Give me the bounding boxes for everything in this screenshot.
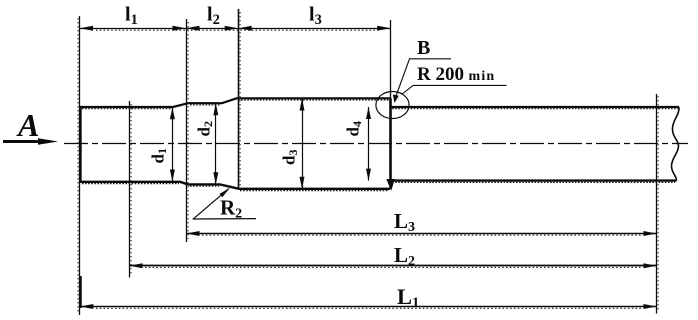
extension line l1/l2 boundary and L3 datum bbox=[186, 19, 188, 242]
extension line right (L1 L2 L3) bbox=[656, 94, 658, 314]
extension line L2 datum bbox=[129, 101, 131, 278]
leader R2 slant bbox=[193, 189, 229, 220]
leader B line bbox=[396, 59, 410, 96]
arrow l2 left bbox=[186, 26, 199, 31]
arrow l1 right bbox=[173, 26, 186, 31]
dimension line L3 bbox=[187, 233, 657, 235]
shaft bottom outline section 1 bbox=[80, 182, 390, 189]
leader B underline bbox=[409, 58, 451, 60]
extension line left (shaft left end, l1/L1 datum) bbox=[79, 16, 81, 315]
leader R2 arrowhead bbox=[220, 188, 231, 198]
arrow l1 left bbox=[80, 26, 94, 31]
leader B arrowhead bbox=[393, 95, 399, 104]
dimension line L2 bbox=[130, 265, 657, 267]
shaft section 4 top edge bbox=[390, 106, 679, 108]
scan texture ticks along dimension and extension lines bbox=[96, 30, 641, 308]
detail circle B bbox=[376, 92, 409, 119]
arrow l2 right bbox=[225, 26, 238, 31]
view arrow A bbox=[3, 138, 58, 145]
dimension line d3 bbox=[302, 99, 304, 189]
shaft break line right end bbox=[672, 107, 680, 181]
extension line l2/l3 boundary bbox=[238, 9, 240, 189]
junction blob at step face bottom bbox=[386, 179, 395, 191]
dimension line L1 bbox=[80, 306, 657, 308]
shaft section 4 bottom edge bbox=[390, 179, 677, 181]
arrow l3 right bbox=[377, 26, 390, 31]
centerline bbox=[64, 143, 688, 145]
dimension line d1 bbox=[172, 107, 174, 181]
shaft step face at x=390 bbox=[389, 98, 392, 189]
leader R200 underline bbox=[413, 84, 507, 86]
leader R200 line bbox=[402, 85, 414, 94]
svg-text:A: A bbox=[16, 107, 39, 143]
dimension line d4 bbox=[368, 107, 370, 181]
svg-text:B: B bbox=[417, 37, 430, 59]
shaft left end face bbox=[79, 106, 81, 183]
dimension line l1-l2-l3 bbox=[80, 28, 391, 30]
extension line left thick lower segment bbox=[79, 276, 82, 308]
dimension line d2 bbox=[215, 103, 217, 184]
scan texture teeth under section edges bbox=[82, 100, 678, 191]
shaft top outline sections 1-3 bbox=[80, 98, 390, 107]
arrow l3 left bbox=[238, 26, 251, 31]
leader R2 underline bbox=[193, 218, 256, 220]
extension line l3 right boundary bbox=[390, 20, 392, 98]
